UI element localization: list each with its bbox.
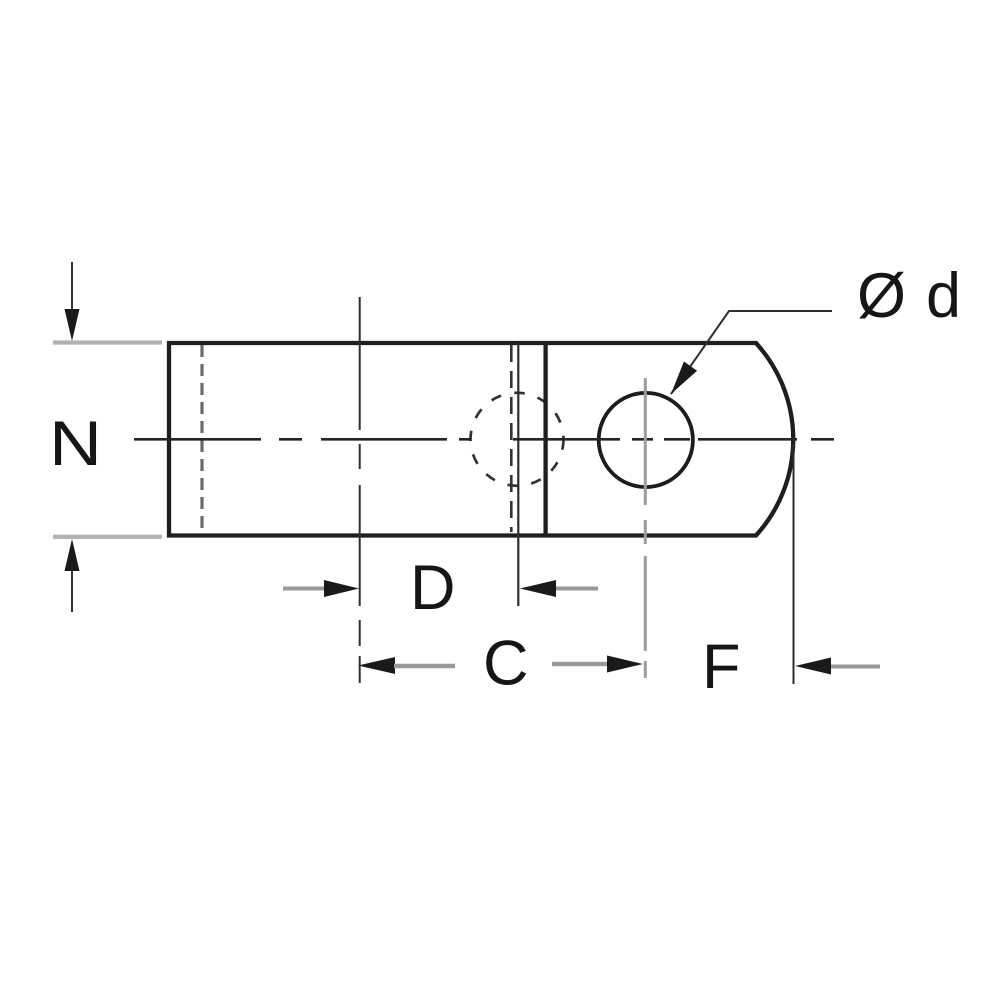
svg-text:C: C xyxy=(483,629,529,699)
body outline xyxy=(169,343,793,536)
hidden thread line xyxy=(200,345,203,533)
dimension C right arrow xyxy=(552,656,643,673)
dimension F arrow xyxy=(795,658,880,675)
top extension line xyxy=(53,340,162,344)
inner edge line xyxy=(517,343,519,606)
svg-text:F: F xyxy=(702,632,740,702)
thread relief dashed circle xyxy=(471,393,564,486)
dimension C left arrow xyxy=(358,657,455,674)
tube end edge xyxy=(543,343,547,536)
svg-text:d: d xyxy=(926,261,961,331)
dimension D left arrow xyxy=(283,580,359,597)
svg-text:N: N xyxy=(49,409,102,479)
dimension N top arrow xyxy=(65,262,80,341)
dimension D right arrow xyxy=(520,580,598,597)
bottom extension line xyxy=(53,535,162,539)
dimension N bottom arrow xyxy=(65,539,80,612)
leader arrowhead xyxy=(671,362,697,395)
svg-text:Ø: Ø xyxy=(857,261,906,331)
right extent extension line xyxy=(793,444,795,684)
hole vertical centerline xyxy=(644,378,647,678)
horizontal centerline xyxy=(134,438,834,441)
svg-text:D: D xyxy=(410,553,456,623)
hidden bore line xyxy=(510,345,513,532)
vertical centerline left xyxy=(359,297,361,683)
leader line to hole xyxy=(671,311,832,394)
pivot hole xyxy=(599,393,693,487)
